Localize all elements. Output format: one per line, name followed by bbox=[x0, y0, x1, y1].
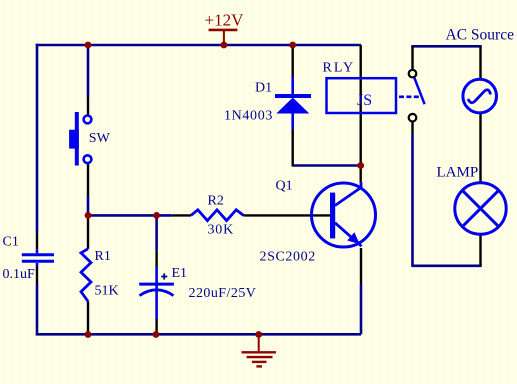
svg-text:220uF/25V: 220uF/25V bbox=[189, 286, 257, 301]
svg-text:C1: C1 bbox=[3, 235, 19, 250]
svg-text:R1: R1 bbox=[95, 249, 111, 264]
svg-text:SW: SW bbox=[89, 131, 111, 146]
svg-text:0.1uF: 0.1uF bbox=[3, 267, 36, 282]
svg-text:+12V: +12V bbox=[205, 10, 245, 29]
svg-text:D1: D1 bbox=[255, 81, 272, 96]
svg-text:LAMP: LAMP bbox=[437, 165, 479, 181]
svg-text:E1: E1 bbox=[172, 266, 188, 281]
svg-text:30K: 30K bbox=[208, 222, 235, 237]
svg-text:R2: R2 bbox=[208, 194, 224, 209]
svg-text:2SC2002: 2SC2002 bbox=[260, 250, 316, 265]
svg-text:Q1: Q1 bbox=[276, 179, 293, 194]
svg-text:JS: JS bbox=[357, 92, 372, 109]
svg-text:AC Source: AC Source bbox=[446, 27, 515, 44]
svg-text:1N4003: 1N4003 bbox=[224, 108, 273, 123]
svg-text:51K: 51K bbox=[95, 283, 119, 298]
svg-text:RLY: RLY bbox=[323, 60, 356, 75]
